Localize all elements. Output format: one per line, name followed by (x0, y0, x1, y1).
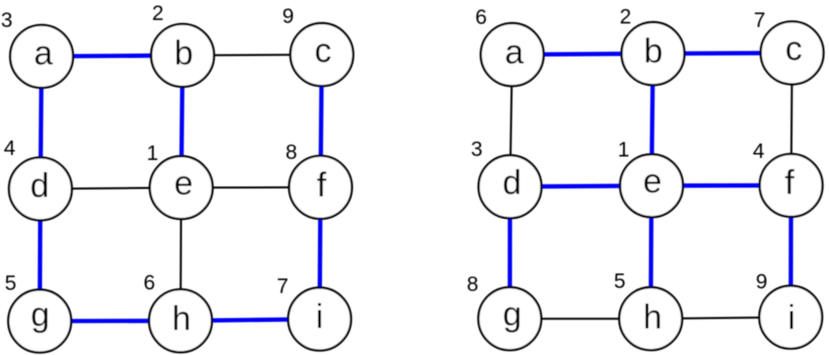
svg-text:7: 7 (277, 275, 289, 298)
wire edge g-h (right graph, non-tree) (510, 318, 651, 320)
svg-text:b: b (174, 34, 193, 72)
svg-text:7: 7 (754, 9, 766, 32)
svg-text:c: c (314, 32, 331, 70)
svg-text:g: g (31, 296, 50, 334)
wire edge d-g (left graph, tree) (38, 189, 43, 321)
node b (right graph) (622, 22, 685, 85)
wire edge e-h (right graph, tree) (649, 186, 654, 319)
svg-text:d: d (30, 167, 49, 205)
svg-text:h: h (643, 298, 662, 336)
svg-text:9: 9 (282, 5, 294, 28)
wire edge f-i (left graph, tree) (317, 187, 322, 319)
node d (left graph) (9, 158, 72, 221)
node i (left graph) (288, 288, 351, 351)
node h (right graph) (619, 287, 682, 350)
svg-text:8: 8 (467, 273, 479, 296)
node g (right graph) (478, 287, 541, 350)
node i (right graph) (759, 286, 822, 349)
node d (right graph) (479, 155, 542, 218)
svg-text:a: a (34, 35, 53, 73)
svg-text:i: i (788, 299, 796, 337)
wire edge b-c (left graph, non-tree) (183, 54, 322, 57)
node a (left graph) (10, 25, 73, 88)
svg-text:h: h (172, 300, 191, 338)
svg-text:4: 4 (4, 137, 16, 160)
svg-text:6: 6 (144, 272, 156, 295)
wire edge e-h (left graph, non-tree) (180, 188, 183, 321)
node c (right graph) (761, 22, 824, 85)
wire edge h-i (right graph, non-tree) (651, 317, 791, 319)
svg-text:b: b (644, 33, 663, 71)
wire edge e-f (left graph, non-tree) (181, 186, 320, 188)
svg-text:a: a (505, 33, 524, 71)
svg-text:3: 3 (471, 138, 483, 161)
wire edge a-b (right graph, tree) (512, 54, 653, 55)
svg-text:3: 3 (1, 9, 13, 32)
svg-text:4: 4 (753, 140, 765, 163)
svg-text:e: e (174, 164, 193, 202)
wire edge e-f (right graph, tree) (652, 183, 792, 188)
svg-text:2: 2 (152, 2, 164, 25)
wire edge d-e (right graph, tree) (510, 186, 652, 187)
svg-text:d: d (502, 164, 521, 202)
svg-text:g: g (503, 295, 522, 333)
wire edge b-c (right graph, tree) (653, 51, 792, 56)
node b (left graph) (151, 24, 214, 87)
svg-text:9: 9 (756, 270, 768, 293)
node e (right graph) (620, 154, 683, 217)
svg-text:c: c (785, 30, 802, 68)
node a (right graph) (481, 23, 544, 86)
wire edge d-e (left graph, non-tree) (40, 188, 181, 189)
wire edge c-f (right graph, non-tree) (791, 53, 792, 186)
wire edge b-e (right graph, tree) (652, 54, 654, 186)
svg-text:1: 1 (618, 139, 630, 162)
svg-text:8: 8 (286, 141, 298, 164)
svg-text:5: 5 (614, 270, 626, 293)
svg-text:e: e (643, 163, 662, 201)
svg-text:6: 6 (475, 6, 487, 29)
wire edge h-i (left graph, tree) (181, 319, 320, 321)
node c (left graph) (290, 23, 353, 86)
wire edge d-g (right graph, tree) (508, 187, 513, 319)
svg-text:f: f (317, 167, 327, 205)
svg-text:1: 1 (147, 142, 159, 165)
wire edge a-d (left graph, tree) (40, 56, 41, 189)
node h (left graph) (149, 289, 212, 352)
svg-text:5: 5 (5, 272, 17, 295)
wire edge f-i (right graph, tree) (789, 185, 794, 317)
wire edge b-e (left graph, tree) (181, 55, 182, 187)
wire edge a-b (left graph, tree) (42, 55, 183, 56)
wire edge a-d (right graph, non-tree) (510, 55, 512, 187)
node e (left graph) (150, 156, 213, 219)
svg-text:f: f (785, 164, 795, 202)
svg-text:2: 2 (620, 5, 632, 28)
wire edge c-f (left graph, tree) (321, 55, 322, 188)
node f (right graph) (760, 154, 823, 217)
node f (left graph) (289, 156, 352, 219)
wire edge g-h (left graph, tree) (40, 319, 181, 324)
node g (left graph) (8, 290, 71, 353)
svg-text:i: i (316, 298, 324, 336)
